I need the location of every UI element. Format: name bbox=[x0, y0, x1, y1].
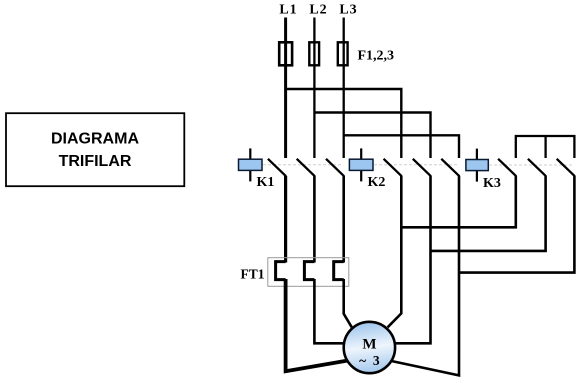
svg-text:M: M bbox=[362, 337, 376, 353]
wire K3-2 lower to node with K2-2 bbox=[431, 176, 546, 251]
wire K2-1 lower to motor (top right) bbox=[388, 176, 402, 327]
contactor K2 coil bbox=[349, 148, 373, 181]
wire branch L1 to K2 contact 1 bbox=[286, 89, 402, 158]
wire K3 star bridge middle stub bbox=[544, 136, 546, 158]
contact K2-1 blade bbox=[384, 159, 402, 177]
contactor K1 coil bbox=[239, 148, 263, 181]
svg-text:DIAGRAMA: DIAGRAMA bbox=[51, 131, 139, 148]
fuse F3 bbox=[338, 42, 348, 65]
contact K1-3 blade bbox=[326, 159, 344, 177]
contact K1-1 blade bbox=[268, 159, 286, 177]
wire L3 vertical (supply to K1 contact 3) bbox=[343, 18, 345, 159]
svg-text:F1,2,3: F1,2,3 bbox=[358, 49, 395, 64]
wire L2 vertical (supply to K1 contact 2) bbox=[313, 18, 315, 159]
wire K3 star bridge bbox=[516, 136, 575, 158]
K1 linkage dashed line bbox=[263, 164, 343, 166]
svg-text:K3: K3 bbox=[483, 176, 501, 191]
K2 linkage dashed line bbox=[374, 164, 458, 166]
svg-text:L1: L1 bbox=[279, 3, 297, 18]
wire branch L2 to K2 contact 2 bbox=[314, 113, 430, 159]
K3 linkage dashed line bbox=[489, 164, 572, 166]
wire K3-3 lower to node with K2-3 bbox=[459, 176, 574, 273]
wire L1 vertical (supply to K1 contact 1) bbox=[284, 18, 287, 159]
contact K2-2 blade bbox=[413, 159, 431, 177]
title box DIAGRAMA TRIFILAR bbox=[6, 113, 184, 186]
svg-text:L3: L3 bbox=[339, 3, 357, 18]
FT1 heater element phase 3 bbox=[334, 262, 344, 280]
fuse F1 bbox=[279, 42, 292, 65]
svg-text:L2: L2 bbox=[309, 3, 327, 18]
wire FT1 phase1 to motor U1 (bottom left) bbox=[286, 279, 348, 371]
motor M bbox=[344, 322, 395, 373]
contact K3-3 blade bbox=[557, 159, 575, 177]
FT1 heater element phase 2 bbox=[304, 262, 314, 280]
svg-text:K1: K1 bbox=[257, 175, 275, 190]
wire K1-1 lower to FT1 bbox=[284, 176, 287, 263]
svg-text:~ 3: ~ 3 bbox=[359, 353, 380, 368]
contact K1-2 blade bbox=[297, 159, 315, 177]
svg-text:K2: K2 bbox=[368, 175, 386, 190]
svg-text:FT1: FT1 bbox=[241, 267, 265, 282]
wire K1-2 lower to FT1 bbox=[313, 176, 316, 263]
FT1 heater element phase 1 bbox=[276, 262, 286, 280]
contactor K3 coil bbox=[466, 149, 488, 182]
contact K2-3 blade bbox=[441, 159, 459, 177]
wire K2-2 lower to motor (right) bbox=[396, 176, 431, 343]
wire FT1 phase3 to motor W1 (top left) bbox=[344, 279, 352, 327]
svg-text:TRIFILAR: TRIFILAR bbox=[59, 153, 132, 170]
wire K1-3 lower to FT1 bbox=[342, 176, 345, 263]
fuse F2 bbox=[309, 42, 319, 65]
contact K3-1 blade bbox=[498, 159, 516, 177]
wire K3-1 lower to node with K2-1 bbox=[401, 176, 516, 227]
wire K2-3 lower to motor (bottom right) bbox=[391, 176, 459, 375]
contact K3-2 blade bbox=[528, 159, 546, 177]
overload relay FT1 box bbox=[268, 258, 349, 287]
wire FT1 phase2 to motor V1 (left) bbox=[314, 279, 344, 343]
wire branch L3 to K2 contact 3 bbox=[344, 135, 459, 158]
